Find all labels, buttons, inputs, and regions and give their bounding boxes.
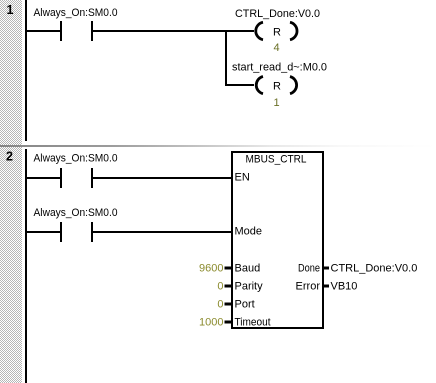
svg-text:CTRL_Done:V0.0: CTRL_Done:V0.0 <box>235 8 320 20</box>
svg-text:1000: 1000 <box>199 317 223 329</box>
left power rail (network 1) <box>25 0 27 141</box>
svg-text:start_read_d~:M0.0: start_read_d~:M0.0 <box>232 62 327 74</box>
reset coil R (CTRL_Done:V0.0) right paren <box>290 22 297 39</box>
pin tick Done <box>324 267 329 270</box>
contact left bar (network 1) <box>60 21 62 41</box>
pin tick Timeout <box>225 321 232 324</box>
pin tick Error <box>324 285 329 288</box>
function block MBUS_CTRL box <box>232 152 323 328</box>
branch junction vertical wire <box>225 30 227 86</box>
svg-text:1: 1 <box>273 97 279 109</box>
svg-text:R: R <box>273 81 281 93</box>
reset coil R (start_read_d~:M0.0) right paren <box>290 77 297 94</box>
contact left bar (Mode row) <box>60 222 62 242</box>
svg-text:Always_On:SM0.0: Always_On:SM0.0 <box>34 207 118 219</box>
svg-text:4: 4 <box>273 42 279 54</box>
pin tick Parity <box>225 285 232 288</box>
svg-text:Baud: Baud <box>235 263 261 275</box>
svg-text:CTRL_Done:V0.0: CTRL_Done:V0.0 <box>331 263 418 275</box>
contact right bar (Mode row) <box>91 222 93 242</box>
wire rail to contact (Mode row) <box>25 231 60 233</box>
svg-text:Mode: Mode <box>235 226 263 238</box>
svg-text:R: R <box>273 27 281 39</box>
wire rail to contact (network 1) <box>25 30 60 32</box>
pin tick Baud <box>225 267 232 270</box>
svg-text:2: 2 <box>6 150 13 164</box>
contact right bar (EN row) <box>91 168 93 188</box>
network margin column (dithered) <box>0 0 22 383</box>
reset coil R (start_read_d~:M0.0) left paren <box>256 77 263 94</box>
network separator line <box>0 145 436 147</box>
svg-text:Done: Done <box>298 263 320 275</box>
wire contact to EN pin <box>93 177 231 179</box>
wire contact to coil R1 <box>93 30 254 32</box>
svg-text:0: 0 <box>217 299 223 311</box>
svg-text:Error: Error <box>296 281 321 293</box>
svg-text:Timeout: Timeout <box>235 317 271 329</box>
svg-text:Always_On:SM0.0: Always_On:SM0.0 <box>34 153 118 165</box>
svg-text:Port: Port <box>235 299 255 311</box>
svg-text:VB10: VB10 <box>331 281 358 293</box>
svg-text:EN: EN <box>235 172 250 184</box>
contact right bar (network 1) <box>91 21 93 41</box>
contact left bar (EN row) <box>60 168 62 188</box>
svg-text:Parity: Parity <box>235 281 264 293</box>
svg-text:9600: 9600 <box>199 263 223 275</box>
branch wire to coil R2 <box>227 84 254 86</box>
wire rail to contact (EN row) <box>25 177 60 179</box>
svg-text:1: 1 <box>7 3 14 17</box>
svg-text:MBUS_CTRL: MBUS_CTRL <box>246 154 307 166</box>
pin tick Port <box>225 303 232 306</box>
svg-text:0: 0 <box>217 281 223 293</box>
svg-text:Always_On:SM0.0: Always_On:SM0.0 <box>34 7 118 19</box>
wire contact to Mode pin <box>93 231 231 233</box>
reset coil R (CTRL_Done:V0.0) left paren <box>256 22 263 39</box>
left power rail (network 2) <box>25 149 27 383</box>
